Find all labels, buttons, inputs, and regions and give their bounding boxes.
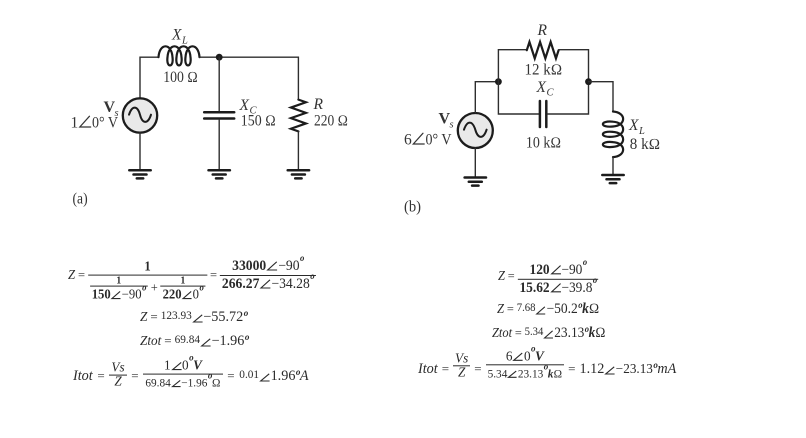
svg-text:X: X	[536, 79, 547, 96]
svg-text:X: X	[171, 27, 182, 44]
svg-text:10 kΩ: 10 kΩ	[526, 134, 561, 151]
wire: node B to inductor XL top	[589, 82, 614, 112]
svg-text:150 Ω: 150 Ω	[241, 113, 276, 130]
label 1 angle 0 V	[71, 115, 119, 132]
capacitor XC (10k) plates	[540, 101, 546, 127]
svg-text:220 Ω: 220 Ω	[314, 112, 348, 129]
label Vs (b)	[439, 111, 454, 131]
wire: capacitor to node B	[548, 82, 589, 114]
wire: inductor to ground	[612, 157, 614, 175]
wire: source b to ground	[474, 148, 476, 178]
label XL (b)	[628, 117, 645, 137]
wire: source to ground	[139, 133, 141, 171]
svg-text:(a): (a)	[73, 191, 88, 208]
inductor XL (8k) vertical	[603, 112, 623, 158]
resistor R (12k) horizontal	[527, 42, 559, 58]
wire: resistor to ground	[297, 131, 299, 170]
svg-text:X: X	[628, 117, 639, 134]
resistor R (220 ohm)	[291, 100, 306, 132]
wire: capacitor to ground	[218, 120, 220, 171]
label 6 angle 0 V (b)	[404, 132, 452, 149]
voltage source Vs (a)	[123, 98, 157, 132]
formula: Itot = Vs/Z = 1/69.84 = 0.01 angle 1.96 A	[73, 360, 309, 392]
svg-text:6: 6	[404, 132, 412, 149]
svg-text:s: s	[450, 120, 454, 131]
capacitor XC (150 ohm) plates	[204, 112, 234, 118]
svg-text:8 kΩ: 8 kΩ	[630, 136, 660, 153]
ground (capacitor branch)	[209, 170, 230, 178]
label XC (b)	[536, 79, 555, 99]
wire: node A down to capacitor branch	[498, 82, 538, 114]
label XL	[171, 27, 188, 47]
svg-text:X: X	[239, 97, 250, 114]
inductor XL (100 ohm)	[159, 46, 200, 65]
node B dot	[585, 78, 592, 85]
wire: node down to capacitor XC	[218, 57, 220, 111]
wire: source top to inductor XL	[140, 57, 159, 98]
ground (source b)	[465, 178, 486, 186]
svg-text:12 kΩ: 12 kΩ	[525, 62, 563, 79]
ground (inductor b)	[602, 175, 623, 183]
wire: node A up to resistor branch	[498, 50, 526, 82]
ground (source a)	[129, 170, 150, 178]
wire: source top to node A	[475, 82, 498, 113]
label Vs	[104, 99, 119, 119]
formula: Itot = Vs/Z = 6/5.34 = 1.12 angle -23.13 mA	[418, 354, 676, 384]
svg-text:R: R	[537, 22, 548, 39]
formula: Z = 1/(1/150 + 1/220) = 33000/266.27	[68, 252, 316, 298]
formula: Ztot = 5.34 angle 23.13 kOhm	[492, 326, 606, 340]
formula: Ztot = 69.84 angle -1.96	[140, 334, 249, 348]
wire: inductor to node to resistor R corner	[200, 57, 299, 99]
node junction dot	[216, 54, 223, 61]
node A dot	[495, 78, 502, 85]
formula: Z = 120/15.62	[498, 258, 599, 294]
svg-text:100 Ω: 100 Ω	[163, 69, 198, 86]
formula: Z = 7.68 angle -50.2 kOhm	[497, 302, 599, 316]
svg-text:(b): (b)	[404, 199, 421, 216]
svg-text:0° V: 0° V	[92, 115, 119, 132]
svg-text:C: C	[547, 87, 555, 98]
svg-text:1: 1	[71, 115, 79, 132]
voltage source Vs (b)	[458, 113, 493, 148]
ground (resistor branch)	[288, 170, 309, 178]
wire: resistor to node B	[559, 50, 589, 82]
svg-text:R: R	[313, 96, 324, 113]
svg-text:L: L	[181, 36, 188, 47]
svg-text:0° V: 0° V	[426, 132, 453, 149]
formula: Z = 123.93 angle -55.72	[140, 310, 248, 324]
label XC	[239, 97, 258, 117]
